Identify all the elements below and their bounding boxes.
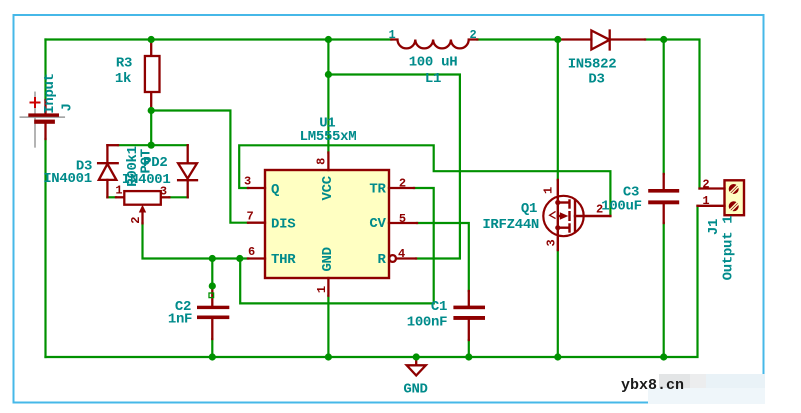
label C3 (623, 185, 639, 201)
svg-text:CV: CV (369, 216, 386, 232)
svg-text:POT: POT (139, 149, 155, 173)
resistor R3 (145, 40, 160, 111)
svg-text:1nF: 1nF (168, 311, 192, 327)
label C2 (175, 299, 191, 315)
pin name VCC (320, 175, 336, 200)
wire C3 top (663, 40, 665, 175)
svg-text:100 uH: 100 uH (409, 55, 458, 71)
svg-text:DIS: DIS (271, 217, 295, 233)
label R00k1 (125, 146, 141, 187)
capacitor C1 (468, 291, 470, 340)
label IN4001 (122, 172, 171, 188)
svg-text:Q: Q (271, 182, 279, 198)
pin number 7 (247, 209, 254, 223)
pin number 1 J1 (702, 194, 709, 208)
label IN4001 (43, 171, 92, 187)
pin name TR (369, 182, 386, 198)
wire top rail right (D3 cathode to J1 drop) (645, 40, 700, 189)
pin number 5 (399, 212, 406, 226)
wire source down (557, 250, 559, 357)
svg-text:1: 1 (541, 187, 555, 194)
svg-text:TR: TR (369, 182, 386, 198)
label L1 (425, 71, 441, 87)
svg-text:1: 1 (702, 194, 709, 208)
pin name GND (320, 247, 336, 271)
svg-text:GND: GND (403, 382, 427, 398)
wire top rail left (46, 38, 392, 40)
pin 3 stub (248, 187, 265, 189)
label 100uF (601, 199, 642, 215)
pin 2 Q1 (596, 202, 603, 216)
diode D3 IN4001 (98, 145, 118, 197)
svg-text:1: 1 (315, 286, 329, 293)
capacitor C3 (663, 174, 665, 223)
pin 1 pot (115, 183, 122, 197)
svg-text:R3: R3 (116, 56, 132, 72)
svg-text:VCC: VCC (320, 175, 336, 200)
label D3 (76, 159, 92, 175)
svg-text:IRFZ44N: IRFZ44N (482, 217, 539, 233)
wire R3 to pot top (150, 111, 152, 146)
wire CV to C1 (417, 223, 469, 291)
wire TR to THR loop (240, 188, 434, 303)
wire GND pin down (327, 296, 329, 357)
op-amp U1 LM555xM body (265, 170, 389, 278)
pin number 8 (315, 158, 329, 165)
svg-text:D3: D3 (588, 72, 604, 88)
pin number 6 (248, 245, 255, 259)
svg-text:2: 2 (129, 217, 143, 224)
svg-text:3: 3 (244, 174, 251, 188)
label 1nF (168, 311, 192, 327)
svg-text:C1: C1 (431, 299, 447, 315)
wire drain drop (557, 40, 559, 181)
svg-text:1: 1 (115, 183, 122, 197)
label Output 1 (721, 216, 737, 281)
pin 7 stub (248, 222, 265, 224)
label D3 (588, 72, 604, 88)
capacitor C2 (211, 289, 213, 339)
svg-text:5: 5 (399, 212, 406, 226)
label Q1 (521, 201, 537, 217)
label IN5822 (568, 56, 617, 72)
svg-text:GND: GND (320, 247, 336, 271)
svg-text:J: J (60, 103, 76, 111)
label U1 (319, 115, 335, 131)
svg-text:Output 1: Output 1 (721, 216, 737, 281)
svg-text:2: 2 (470, 28, 477, 42)
watermark background (659, 374, 765, 402)
pin name THR (271, 252, 296, 268)
pin 8 stub (327, 153, 329, 171)
wire C2 top (211, 259, 213, 287)
wire pot wiper to THR (143, 223, 249, 258)
svg-text:IN4001: IN4001 (43, 171, 92, 187)
svg-text:THR: THR (271, 252, 296, 268)
wire battery left vertical (44, 40, 46, 358)
pin 3 Q1 (545, 239, 559, 246)
pin number 1 (315, 286, 329, 293)
wire R3 to DIS (151, 111, 248, 223)
svg-text:1k: 1k (115, 71, 131, 87)
svg-text:8: 8 (315, 158, 329, 165)
label J1 (706, 219, 722, 235)
label Input (42, 73, 58, 114)
wire pot loop bottom left (107, 196, 116, 198)
pin 4 stub with bubble (389, 255, 416, 262)
pin 1 Q1 (541, 187, 555, 194)
svg-text:Input: Input (42, 73, 58, 114)
svg-text:2: 2 (399, 177, 406, 191)
pin 2 L1 (470, 28, 477, 42)
wire C2 bottom (211, 339, 213, 357)
wire top rail mid (L1 to D3 anode) (477, 38, 558, 40)
svg-text:4: 4 (398, 247, 405, 261)
svg-text:2: 2 (702, 178, 709, 192)
label IRFZ44N (482, 217, 539, 233)
label R3 (116, 56, 132, 72)
svg-text:IN5822: IN5822 (568, 56, 617, 72)
label J (60, 103, 76, 111)
svg-text:3: 3 (545, 239, 559, 246)
wire pot loop top (118, 144, 188, 146)
svg-text:7: 7 (247, 209, 254, 223)
wire Q out to gate (239, 145, 610, 216)
watermark text ybx8.cn (621, 377, 684, 394)
battery BT input (20, 92, 64, 147)
wire VCC drop (327, 40, 329, 153)
label LM555xM (300, 129, 357, 145)
pin number 2 J1 (702, 178, 709, 192)
pin 5 stub (389, 222, 417, 224)
svg-text:100nF: 100nF (407, 315, 448, 331)
pin 1 L1 (389, 28, 396, 42)
label C1 (431, 299, 447, 315)
wire C3 bottom (663, 223, 665, 357)
wire C1 bottom (468, 340, 470, 357)
svg-text:LM555xM: LM555xM (300, 129, 357, 145)
pin name R (377, 252, 386, 268)
pin 1 stub (327, 278, 329, 296)
label 100 uH (409, 55, 458, 71)
wire reset net (VCC to pin4 R) (328, 75, 460, 259)
svg-text:R: R (377, 252, 386, 268)
label 100nF (407, 315, 448, 331)
label GND (403, 382, 427, 398)
potentiometer RV1 (116, 191, 169, 223)
svg-text:Q1: Q1 (521, 201, 537, 217)
wire bottom rail (46, 206, 698, 357)
diode PD2 IN4001 (178, 145, 197, 197)
connector J1 (725, 180, 745, 215)
label POT (139, 149, 155, 173)
pin 3 pot (160, 185, 167, 199)
pin number 2 (399, 177, 406, 191)
pin number 4 (398, 247, 405, 261)
wire pot pin3 to D2 (169, 196, 187, 198)
pin 2 stub J1 (700, 187, 725, 189)
pin name CV (369, 216, 386, 232)
transistor Q1 IRFZ44N (543, 180, 610, 250)
pin 2 stub (389, 187, 414, 189)
pin 6 stub (248, 257, 265, 259)
svg-text:1: 1 (389, 28, 396, 42)
pin name Q (271, 182, 279, 198)
pin 2 pot (129, 217, 143, 224)
ground (407, 357, 426, 376)
svg-text:L1: L1 (425, 71, 441, 87)
svg-text:3: 3 (160, 185, 167, 199)
label PD2 (143, 155, 167, 171)
diode D3 IN5822 (558, 31, 645, 50)
svg-text:6: 6 (248, 245, 255, 259)
pin 1 stub J1 (698, 205, 725, 207)
pin name DIS (271, 217, 295, 233)
inductor L1 (391, 40, 477, 49)
label 1k (115, 71, 131, 87)
pin number 3 (244, 174, 251, 188)
svg-text:100uF: 100uF (601, 199, 642, 215)
